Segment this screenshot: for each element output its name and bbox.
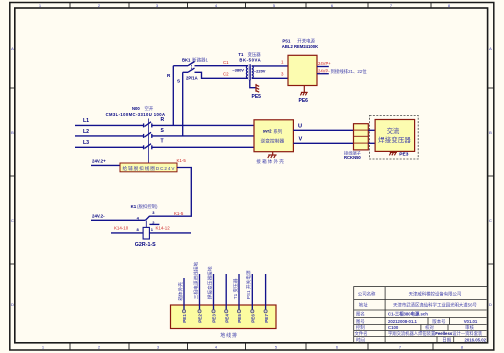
wire C1 <box>195 65 249 67</box>
circuit breaker BK1 <box>173 57 208 81</box>
wire svr2 ground stub <box>272 152 274 155</box>
terminal block RCKN50 <box>344 124 368 161</box>
svg-text:D: D <box>11 302 14 307</box>
svg-text:K14-10: K14-10 <box>114 226 129 231</box>
svg-text:地线排: 地线排 <box>220 332 237 339</box>
wire 24VP+ stub <box>317 66 329 68</box>
svg-text:K14-12: K14-12 <box>156 226 171 231</box>
svg-text:接箱体外壳: 接箱体外壳 <box>256 158 284 165</box>
svg-text:PE2: PE2 <box>198 314 203 323</box>
svg-text:天津威科模控设备有限公司: 天津威科模控设备有限公司 <box>409 290 462 297</box>
svg-text:C: C <box>489 218 492 223</box>
svg-text:给辅脱扣线圈DC24V: 给辅脱扣线圈DC24V <box>123 165 176 172</box>
svg-text:控制: 控制 <box>356 324 365 331</box>
terminal PE2 riser <box>199 274 201 310</box>
terminal PE5 riser <box>238 274 240 310</box>
wire R riser to BK1 <box>172 66 174 126</box>
svg-text:断路器1: 断路器1 <box>192 57 208 64</box>
relay K1 <box>131 203 158 210</box>
svg-text:时间: 时间 <box>356 337 365 344</box>
svg-text:逆变控制器: 逆变控制器 <box>261 137 285 144</box>
svg-text:U: U <box>298 123 302 129</box>
svg-text:(脱扣控制): (脱扣控制) <box>137 203 158 210</box>
terminal labels PE1-PE7 <box>182 314 269 323</box>
svg-text:审核: 审核 <box>465 324 474 331</box>
svg-text:K1-5: K1-5 <box>174 211 184 216</box>
svg-text:到接线排21、22位: 到接线排21、22位 <box>331 68 368 75</box>
svg-text:焊接变压器接地: 焊接变压器接地 <box>206 266 213 299</box>
svg-text:版本号: 版本号 <box>432 318 446 325</box>
svg-text:地址: 地址 <box>359 302 368 308</box>
svg-text:焊接变压器: 焊接变压器 <box>378 135 411 144</box>
svg-text:S: S <box>177 79 180 84</box>
svg-text:24V.2-: 24V.2- <box>92 213 105 218</box>
title block <box>354 287 488 344</box>
svg-text:交流: 交流 <box>387 126 400 135</box>
wire U output <box>293 129 353 131</box>
wire 24V.2+ <box>91 164 120 166</box>
svg-text:2016.05.02: 2016.05.02 <box>465 338 487 343</box>
terminal PE3 riser <box>213 274 215 310</box>
svg-text:24V.2+: 24V.2+ <box>92 159 106 164</box>
linkage to coil <box>145 221 147 228</box>
svg-text:G2R-1-S: G2R-1-S <box>135 242 156 248</box>
ground PE6 <box>300 92 307 95</box>
wire trip coil feed from T phase <box>147 119 149 164</box>
svg-text:PS1: PS1 <box>282 39 291 44</box>
svg-text:公司名称: 公司名称 <box>358 290 376 297</box>
ground bar strip <box>171 305 277 329</box>
svg-text:BK1: BK1 <box>182 58 191 63</box>
wire S riser to BK1 <box>182 72 184 136</box>
wire L2 bus <box>75 135 143 137</box>
wire 24V.2- to pin 4 <box>91 219 145 221</box>
terminal circles <box>182 310 267 313</box>
svg-text:系列: 系列 <box>273 128 282 135</box>
svg-text:T: T <box>161 139 164 145</box>
aux trip coil box <box>120 163 177 172</box>
svg-text:PE6: PE6 <box>299 98 309 104</box>
svg-text:PE1: PE1 <box>182 314 187 323</box>
svg-text:K1-5: K1-5 <box>177 158 187 163</box>
svg-text:三相电源进线接地: 三相电源进线接地 <box>192 261 199 299</box>
svg-text:箱体外壳: 箱体外壳 <box>177 282 184 301</box>
wire 24VP- stub <box>317 73 329 75</box>
svg-text:24VP+: 24VP+ <box>318 61 331 66</box>
wire T bus <box>152 146 254 148</box>
svg-text:B: B <box>11 130 14 135</box>
svg-text:A: A <box>11 46 14 51</box>
svg-text:C1: C1 <box>223 60 229 65</box>
svg-text:CM3L-100MC-3310U 100A: CM3L-100MC-3310U 100A <box>106 112 165 117</box>
terminal PE7 riser <box>265 274 267 310</box>
svg-text:V: V <box>299 137 303 143</box>
svg-text:L2: L2 <box>83 129 89 135</box>
svg-text:R: R <box>161 117 165 123</box>
coil K1 <box>143 227 149 239</box>
svg-text:C1-三相380电源.sch: C1-三相380电源.sch <box>388 310 428 317</box>
svg-text:天津市武清区逸仙科学工业园光明大道56号: 天津市武清区逸仙科学工业园光明大道56号 <box>393 302 478 309</box>
svg-text:N00: N00 <box>132 106 140 111</box>
wire R bus <box>152 124 254 126</box>
svg-text:24VP-: 24VP- <box>318 69 330 74</box>
svg-text:PS1 开关电源: PS1 开关电源 <box>245 270 252 299</box>
wire coil right K14-12 <box>149 232 191 234</box>
svg-text:V01.01: V01.01 <box>464 319 478 324</box>
wire PE6 stub <box>303 86 305 93</box>
terminal PE1 riser <box>183 278 185 310</box>
svg-text:RCKN50: RCKN50 <box>344 155 361 160</box>
wire U to welder <box>368 129 375 131</box>
ground PE3 <box>389 151 397 155</box>
wire T1 secondary bottom <box>252 77 288 79</box>
svg-text:T1 变压器: T1 变压器 <box>232 278 239 299</box>
svg-text:BK-50VA: BK-50VA <box>239 57 260 62</box>
svg-text:2P/1A: 2P/1A <box>186 75 198 80</box>
wire V output <box>293 142 353 144</box>
inverter controller U1 svr2 <box>254 120 293 152</box>
svg-text:ABL2 REM24100K: ABL2 REM24100K <box>282 44 318 49</box>
wire coil left K14-10 <box>111 232 143 234</box>
ground chassis svr2 <box>268 155 277 158</box>
svg-text:PE5: PE5 <box>237 314 242 323</box>
svg-text:校对: 校对 <box>425 324 434 331</box>
svg-text:图名: 图名 <box>356 310 365 317</box>
svg-text:B: B <box>489 130 492 135</box>
svg-text:C100: C100 <box>388 325 399 330</box>
wire L1 bus <box>75 124 143 126</box>
wire T1 secondary top <box>252 65 288 67</box>
svg-text:L3: L3 <box>83 140 89 146</box>
ground PE5 <box>256 84 259 92</box>
svg-text:文件名: 文件名 <box>355 330 368 337</box>
wire pin 2 stub <box>149 223 159 225</box>
svg-text:PE6: PE6 <box>251 314 256 323</box>
wire L3 bus <box>75 146 143 148</box>
terminal PE6 riser <box>251 274 253 310</box>
wire C2 <box>195 72 249 78</box>
welding transformer PE3 unit <box>370 115 419 159</box>
svg-text:~220V: ~220V <box>254 68 266 73</box>
wire S bus <box>152 135 254 137</box>
wire from trip box to K1 contact <box>149 168 191 217</box>
svg-text:PE5: PE5 <box>252 94 262 100</box>
svg-text:PE3: PE3 <box>212 314 217 323</box>
wire PE5 stub <box>250 80 256 88</box>
svg-text:svr2: svr2 <box>263 129 272 134</box>
svg-text:D: D <box>489 302 492 307</box>
svg-text:PE4: PE4 <box>224 314 229 323</box>
contact blade K1 <box>145 216 149 220</box>
svg-text:PE3: PE3 <box>399 152 408 158</box>
breaker N00 <box>106 105 165 149</box>
wire V to welder <box>368 142 375 144</box>
svg-text:~380V: ~380V <box>232 68 244 73</box>
svg-text:K1: K1 <box>131 204 137 209</box>
svg-text:T1: T1 <box>238 52 244 57</box>
svg-text:PE7: PE7 <box>264 314 269 323</box>
svg-text:L1: L1 <box>83 118 89 124</box>
svg-text:C2: C2 <box>223 71 229 76</box>
svg-text:宇翔交流机器人焊钳装置Feelless设计—资料套装: 宇翔交流机器人焊钳装置Feelless设计—资料套装 <box>388 330 483 337</box>
terminal PE4 riser <box>225 274 227 310</box>
transformer T1 <box>232 51 266 80</box>
svg-text:C: C <box>11 218 14 223</box>
svg-text:A: A <box>489 46 492 51</box>
svg-text:20212008-01.1: 20212008-01.1 <box>388 319 418 324</box>
power supply PS1 <box>282 38 318 86</box>
